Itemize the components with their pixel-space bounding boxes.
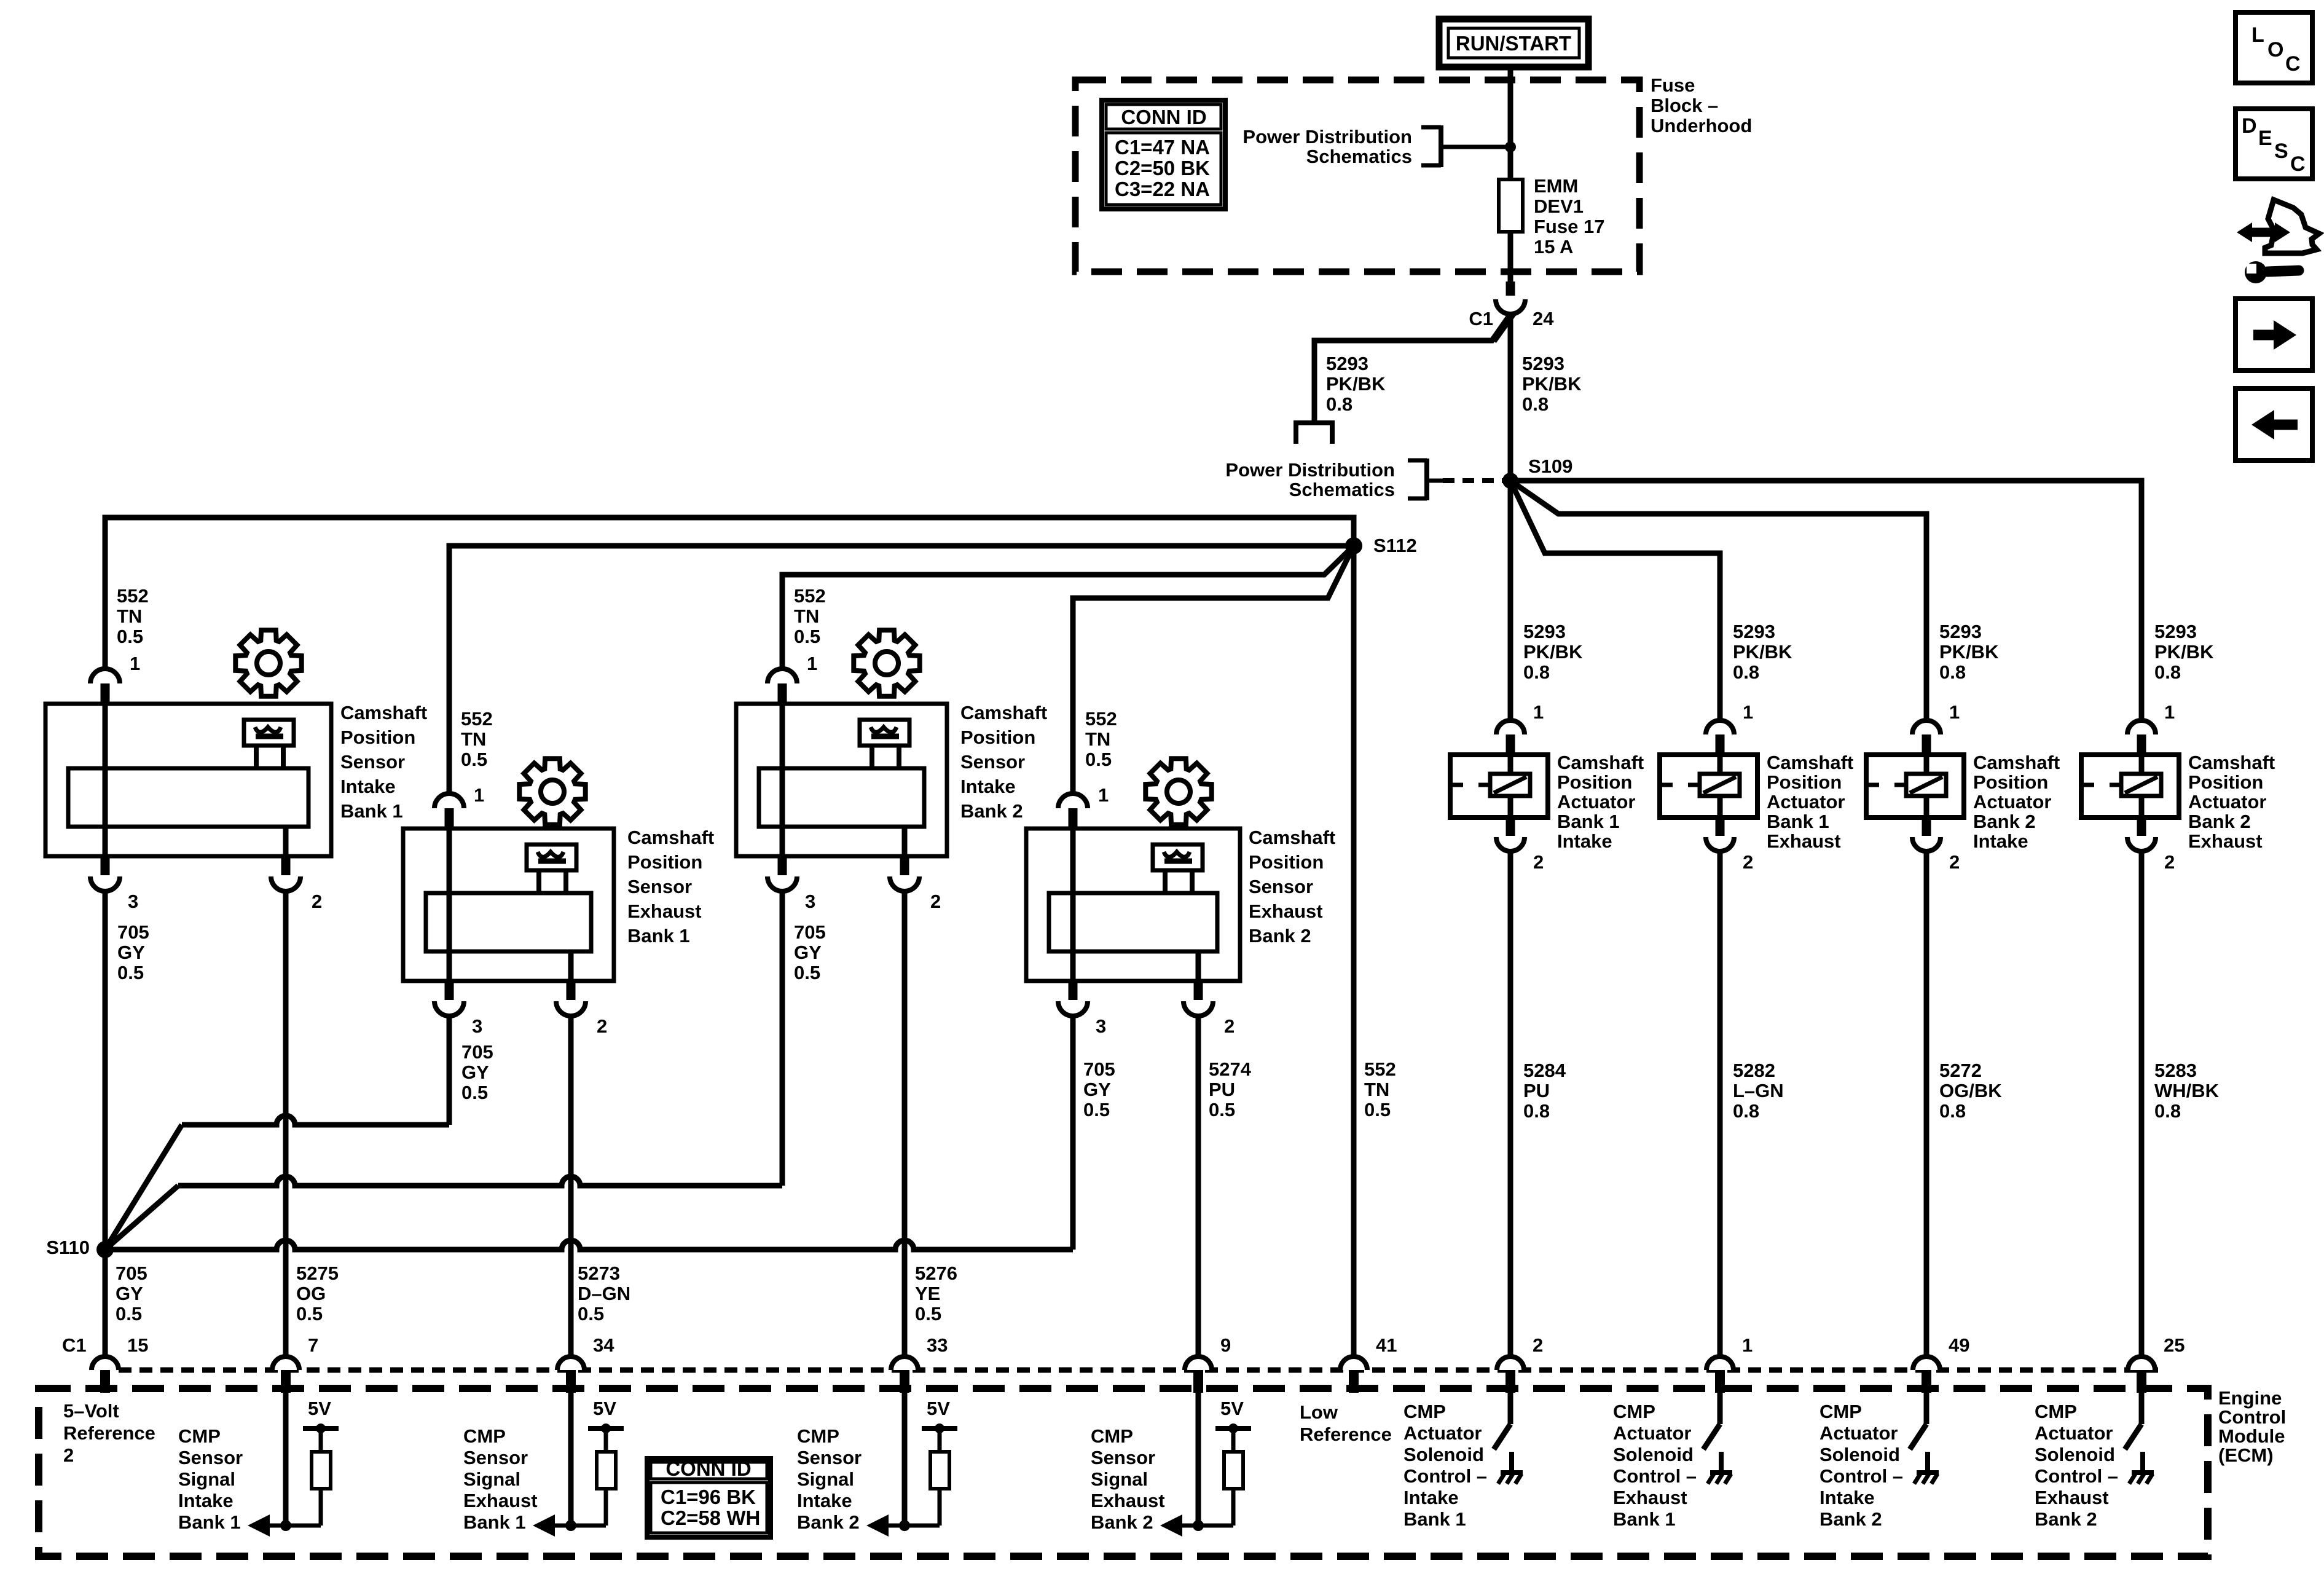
label Camshaft Position Actuator Bank 2 Intake — [1973, 752, 2060, 852]
svg-text:PU: PU — [1523, 1080, 1550, 1101]
label pin number 2 — [1533, 1334, 1543, 1356]
camshaft position sensor exhaust bank 2 — [1026, 829, 1240, 981]
svg-text:D: D — [2242, 114, 2257, 138]
svg-text:1: 1 — [2164, 701, 2175, 723]
svg-text:7: 7 — [308, 1334, 318, 1356]
svg-text:Bank 2: Bank 2 — [797, 1511, 860, 1533]
wire sensor1 pin3 down to S110 — [103, 891, 108, 1250]
svg-text:Actuator: Actuator — [1557, 791, 1635, 813]
label Camshaft Position Sensor Exhaust Bank 1 — [627, 827, 714, 947]
camshaft position actuator bank 2 intake — [1866, 720, 1964, 851]
driver switch (Intake Bank 1) — [1494, 1391, 1510, 1449]
gear icon (sensor2) — [519, 758, 585, 824]
svg-text:TN: TN — [117, 605, 142, 627]
svg-text:CMP: CMP — [1820, 1401, 1862, 1422]
splice S110 — [96, 1241, 114, 1258]
svg-text:Underhood: Underhood — [1651, 115, 1752, 136]
wire sensor3 pin3 to S110 — [105, 891, 782, 1250]
svg-text:Bank 1: Bank 1 — [463, 1511, 526, 1533]
svg-text:Camshaft: Camshaft — [1973, 752, 2060, 773]
svg-text:Control –: Control – — [2035, 1465, 2118, 1487]
svg-text:CMP: CMP — [2035, 1401, 2077, 1422]
label pin 1 (camshaft position actuator bank 2 intake) — [1949, 701, 1960, 723]
wire 5284 PU to ECM — [1508, 851, 1513, 1357]
5V pull-up resistor (Intake Bank 2) — [866, 1398, 957, 1537]
label wire 5293 PK/BK 0.8 (camshaft position actuator bank 1 intake) — [1523, 621, 1583, 683]
svg-text:Position: Position — [1973, 771, 2048, 793]
svg-text:Intake: Intake — [178, 1490, 234, 1511]
connector pin1 sensor1 — [90, 669, 120, 704]
svg-text:Intake: Intake — [1973, 830, 2028, 852]
camshaft position actuator bank 1 intake — [1450, 720, 1548, 851]
svg-text:Position: Position — [2188, 771, 2263, 793]
svg-text:5283: 5283 — [2154, 1060, 2197, 1081]
ground (Exhaust Bank 1) — [1708, 1452, 1732, 1484]
svg-text:Sensor: Sensor — [1091, 1447, 1155, 1468]
connector C1 pin 24 below fuse block — [1496, 282, 1525, 314]
svg-text:Schematics: Schematics — [1289, 479, 1395, 500]
svg-text:552: 552 — [1364, 1058, 1396, 1080]
svg-text:49: 49 — [1949, 1334, 1969, 1356]
svg-text:(ECM): (ECM) — [2218, 1444, 2274, 1466]
svg-text:Fuse: Fuse — [1651, 74, 1695, 96]
svg-text:2: 2 — [312, 891, 322, 912]
svg-text:5284: 5284 — [1523, 1060, 1566, 1081]
gear icon (sensor1) — [235, 630, 301, 696]
svg-text:GY: GY — [794, 942, 822, 963]
svg-text:1: 1 — [474, 784, 484, 806]
svg-text:S110: S110 — [46, 1237, 90, 1258]
svg-text:0.8: 0.8 — [2154, 661, 2181, 683]
svg-text:Exhaust: Exhaust — [463, 1490, 538, 1511]
svg-text:CMP: CMP — [1613, 1401, 1655, 1422]
connector pin3 sensor1 — [90, 856, 120, 891]
icon back arrow box — [2236, 388, 2312, 460]
svg-text:Bank 2: Bank 2 — [1973, 811, 2036, 832]
wire 552 TN sensor1 pin1 to S112 — [105, 518, 1354, 669]
connector pin2 sensor1 — [271, 856, 300, 891]
svg-text:EMM: EMM — [1534, 175, 1578, 197]
svg-text:2: 2 — [597, 1015, 607, 1037]
label pin 1 (sensor4) — [1098, 784, 1109, 806]
svg-text:Actuator: Actuator — [1403, 1422, 1482, 1444]
label CMP Actuator Solenoid Control Intake Bank 1 — [1403, 1401, 1487, 1530]
svg-text:1: 1 — [1743, 701, 1753, 723]
svg-text:3: 3 — [128, 891, 138, 912]
label pin 1 (camshaft position actuator bank 2 exhaust) — [2164, 701, 2175, 723]
svg-text:Bank 2: Bank 2 — [1091, 1511, 1153, 1533]
ECM connector pin 1 — [1706, 1357, 1733, 1393]
connector pin3 sensor2 — [434, 981, 464, 1016]
svg-text:TN: TN — [1364, 1079, 1389, 1100]
label wire 552 TN 0.5 (to pin41) — [1364, 1058, 1396, 1120]
svg-text:552: 552 — [117, 585, 149, 607]
svg-text:CMP: CMP — [1091, 1425, 1133, 1447]
svg-text:Exhaust: Exhaust — [1767, 830, 1841, 852]
label wire 552 TN 0.5 (sensor1) — [117, 585, 149, 647]
ECM connector pin 2 — [1497, 1357, 1524, 1393]
label pin 1 (sensor3) — [807, 653, 817, 674]
wire from top callout to junction — [1454, 145, 1510, 149]
wire 552 TN sensor3 pin1 to S112 — [782, 546, 1354, 669]
svg-text:Intake: Intake — [1403, 1487, 1459, 1508]
svg-text:Position: Position — [1767, 771, 1842, 793]
svg-text:Position: Position — [960, 726, 1035, 748]
svg-text:5V: 5V — [927, 1398, 950, 1419]
svg-text:705: 705 — [1083, 1058, 1115, 1080]
ECM connector pin 9 — [1185, 1357, 1212, 1393]
label pin 1 (sensor2) — [474, 784, 484, 806]
svg-text:TN: TN — [461, 728, 486, 750]
svg-text:0.8: 0.8 — [1523, 661, 1550, 683]
svg-text:41: 41 — [1376, 1334, 1397, 1356]
icon LOC box — [2236, 12, 2312, 83]
svg-text:CONN ID: CONN ID — [665, 1457, 751, 1480]
svg-text:Intake: Intake — [340, 776, 396, 797]
svg-text:Exhaust: Exhaust — [1613, 1487, 1687, 1508]
svg-text:Exhaust: Exhaust — [2035, 1487, 2109, 1508]
connector pin3 sensor3 — [767, 856, 797, 891]
svg-text:GY: GY — [1083, 1079, 1111, 1100]
fuse block dashed border — [1075, 80, 1639, 272]
svg-text:Control –: Control – — [1613, 1465, 1697, 1487]
wire 552 TN sensor2 pin1 to S112 — [449, 546, 1354, 794]
svg-text:C2=58 WH: C2=58 WH — [661, 1506, 760, 1529]
svg-text:Sensor: Sensor — [1249, 876, 1313, 897]
ECM connector pin 41 — [1340, 1357, 1367, 1393]
svg-text:0.5: 0.5 — [116, 1303, 142, 1325]
svg-text:GY: GY — [461, 1061, 489, 1083]
svg-text:0.5: 0.5 — [1209, 1099, 1235, 1120]
label pin 2 (sensor3) — [930, 891, 941, 912]
wire sensor4 pin3 to S110 — [105, 1016, 1073, 1250]
svg-text:0.8: 0.8 — [1523, 1100, 1550, 1122]
label pin 2 (camshaft position actuator bank 1 exhaust) — [1743, 851, 1753, 873]
svg-text:TN: TN — [794, 605, 819, 627]
svg-text:PK/BK: PK/BK — [2154, 641, 2214, 663]
svg-text:5282: 5282 — [1733, 1060, 1775, 1081]
svg-text:Intake: Intake — [1820, 1487, 1875, 1508]
svg-text:PK/BK: PK/BK — [1326, 373, 1386, 395]
svg-text:S112: S112 — [1373, 535, 1417, 556]
svg-text:Bank 2: Bank 2 — [960, 800, 1023, 822]
svg-text:705: 705 — [117, 921, 149, 943]
ECM connector pin 7 — [272, 1357, 299, 1393]
label wire 5272 OG/BK 0.8 — [1939, 1060, 2002, 1122]
wire 705 GY S110 to ECM pin15 — [103, 1250, 108, 1357]
splice S112 — [1345, 537, 1362, 554]
svg-text:2: 2 — [1743, 851, 1753, 873]
label pin 2 (camshaft position actuator bank 1 intake) — [1533, 851, 1544, 873]
svg-text:Sensor: Sensor — [797, 1447, 862, 1468]
svg-text:3: 3 — [805, 891, 815, 912]
label wire 5274 PU 0.5 — [1209, 1058, 1252, 1120]
svg-text:2: 2 — [930, 891, 941, 912]
svg-text:0.8: 0.8 — [1733, 1100, 1759, 1122]
driver switch (Exhaust Bank 1) — [1703, 1391, 1720, 1449]
svg-text:1: 1 — [130, 653, 140, 674]
svg-text:Fuse 17: Fuse 17 — [1534, 216, 1604, 237]
wire S109 to actuator bank2 intake — [1510, 481, 1926, 720]
svg-text:Position: Position — [627, 851, 702, 873]
label pin 2 (camshaft position actuator bank 2 intake) — [1949, 851, 1960, 873]
svg-text:5273: 5273 — [578, 1262, 620, 1284]
label pin 2 (sensor1) — [312, 891, 322, 912]
wire 5293 left branch diagonal — [1314, 316, 1509, 423]
svg-text:Exhaust: Exhaust — [1249, 900, 1323, 922]
svg-text:5276: 5276 — [915, 1262, 957, 1284]
svg-text:Block –: Block – — [1651, 95, 1718, 116]
wire 5275 OG sensor1 pin2 to ECM pin7 — [283, 891, 289, 1357]
label S109 — [1528, 455, 1572, 477]
svg-text:Camshaft: Camshaft — [1249, 827, 1335, 848]
svg-text:D–GN: D–GN — [578, 1283, 630, 1304]
label CMP Sensor Signal Exhaust Bank 2 — [1091, 1425, 1165, 1533]
svg-text:Sensor: Sensor — [340, 751, 405, 773]
label Camshaft Position Sensor Intake Bank 2 — [960, 702, 1047, 822]
svg-text:PK/BK: PK/BK — [1523, 641, 1583, 663]
wire 5293 PK/BK main down to S109 — [1508, 314, 1513, 481]
svg-text:C: C — [2285, 52, 2301, 76]
label pin 3 (sensor3) — [805, 891, 815, 912]
svg-text:0.8: 0.8 — [1522, 393, 1549, 415]
dashed wire callout to S109 — [1443, 478, 1503, 483]
bracket (S109 callout) — [1408, 459, 1443, 500]
svg-text:5293: 5293 — [1733, 621, 1775, 642]
camshaft position sensor exhaust bank 1 — [403, 829, 614, 981]
connector pin2 sensor3 — [890, 856, 919, 891]
svg-text:Camshaft: Camshaft — [627, 827, 714, 848]
label pin 3 (sensor4) — [1096, 1015, 1106, 1037]
connector pin1 sensor3 — [767, 669, 797, 704]
svg-text:Bank 2: Bank 2 — [2188, 811, 2251, 832]
svg-text:1: 1 — [807, 653, 817, 674]
svg-text:Bank 1: Bank 1 — [1557, 811, 1620, 832]
wire S109 down to actuator bank1 intake — [1508, 481, 1513, 720]
label 5-Volt Reference 2 — [63, 1400, 155, 1466]
svg-text:C1=47 NA: C1=47 NA — [1115, 136, 1210, 159]
svg-text:1: 1 — [1949, 701, 1960, 723]
svg-text:Position: Position — [340, 726, 415, 748]
svg-text:PK/BK: PK/BK — [1733, 641, 1792, 663]
svg-text:L: L — [2251, 23, 2264, 47]
svg-text:5293: 5293 — [1523, 621, 1566, 642]
ground (Intake Bank 1) — [1498, 1452, 1523, 1484]
svg-text:Exhaust: Exhaust — [627, 900, 702, 922]
label Low Reference — [1300, 1401, 1392, 1445]
label wire 705 GY 0.5 (sensor1 pin3) — [117, 921, 149, 983]
svg-text:2: 2 — [1533, 851, 1544, 873]
svg-text:2: 2 — [1224, 1015, 1235, 1037]
svg-text:GY: GY — [117, 942, 145, 963]
label CMP Actuator Solenoid Control Exhaust Bank 2 — [2035, 1401, 2118, 1530]
svg-text:Signal: Signal — [1091, 1468, 1148, 1490]
label wire 5293 PK/BK 0.8 (camshaft position actuator bank 2 exhaust) — [2154, 621, 2214, 683]
label pin number 33 — [927, 1334, 948, 1356]
svg-text:Actuator: Actuator — [1767, 791, 1845, 813]
svg-text:PU: PU — [1209, 1079, 1235, 1100]
svg-text:Control: Control — [2218, 1406, 2286, 1428]
svg-text:PK/BK: PK/BK — [1522, 373, 1582, 395]
svg-text:552: 552 — [1085, 708, 1117, 730]
svg-text:C2=50 BK: C2=50 BK — [1115, 157, 1210, 179]
label pin number 15 — [127, 1334, 148, 1356]
bracket (top callout) — [1421, 125, 1454, 167]
svg-text:0.5: 0.5 — [794, 962, 820, 983]
wire 5273 D-GN sensor2 pin2 to ECM pin34 — [568, 1016, 574, 1357]
wire 5282 L–GN to ECM — [1717, 851, 1723, 1357]
svg-text:Bank 2: Bank 2 — [2035, 1508, 2097, 1530]
svg-text:Power Distribution: Power Distribution — [1225, 459, 1395, 481]
svg-text:Actuator: Actuator — [1973, 791, 2051, 813]
svg-text:Camshaft: Camshaft — [960, 702, 1047, 723]
label wire 705 GY 0.5 (sensor2 pin3) — [461, 1041, 493, 1103]
wire from RUN/START into fuse block — [1508, 67, 1513, 148]
svg-text:0.5: 0.5 — [1085, 749, 1112, 770]
label pin 1 (camshaft position actuator bank 1 intake) — [1533, 701, 1544, 723]
camshaft position sensor intake bank 2 — [736, 704, 947, 856]
label C1 (ECM connector) — [62, 1334, 87, 1356]
svg-text:Bank 1: Bank 1 — [1403, 1508, 1466, 1530]
label wire 5293 PK/BK 0.8 (main) — [1522, 353, 1582, 415]
svg-text:Reference: Reference — [1300, 1423, 1392, 1445]
svg-text:33: 33 — [927, 1334, 948, 1356]
ground (Exhaust Bank 2) — [2129, 1452, 2154, 1484]
label pin number 7 — [308, 1334, 318, 1356]
power feed RUN/START box — [1439, 19, 1588, 67]
wire Intake Bank 1 signal inside ECM — [283, 1392, 289, 1526]
svg-text:5272: 5272 — [1939, 1060, 1982, 1081]
ground (Intake Bank 2) — [1914, 1452, 1939, 1484]
svg-text:0.8: 0.8 — [1733, 661, 1759, 683]
svg-text:O: O — [2267, 38, 2283, 61]
label wire 552 TN 0.5 (sensor2) — [461, 708, 493, 770]
svg-text:0.5: 0.5 — [578, 1303, 604, 1325]
svg-text:0.8: 0.8 — [2154, 1100, 2181, 1122]
label CMP Actuator Solenoid Control Intake Bank 2 — [1820, 1401, 1903, 1530]
svg-text:Exhaust: Exhaust — [2188, 830, 2263, 852]
svg-text:DEV1: DEV1 — [1534, 195, 1584, 217]
svg-text:3: 3 — [1096, 1015, 1106, 1037]
ECM connector pin 34 — [557, 1357, 584, 1393]
svg-text:Actuator: Actuator — [2188, 791, 2266, 813]
svg-text:Control –: Control – — [1403, 1465, 1487, 1487]
CONN ID table (fuse block) — [1102, 100, 1225, 209]
svg-text:C1: C1 — [62, 1334, 87, 1356]
svg-text:Actuator: Actuator — [1820, 1422, 1898, 1444]
svg-text:5V: 5V — [308, 1398, 331, 1419]
wire 5274 PU sensor4 pin2 to ECM pin9 — [1196, 1016, 1201, 1357]
label Camshaft Position Actuator Bank 2 Exhaust — [2188, 752, 2275, 852]
label wire 705 GY 0.5 (below S110) — [116, 1262, 147, 1325]
svg-text:0.5: 0.5 — [117, 626, 143, 647]
svg-text:0.5: 0.5 — [117, 962, 144, 983]
svg-text:GY: GY — [116, 1283, 143, 1304]
svg-text:0.8: 0.8 — [1939, 661, 1966, 683]
svg-text:C: C — [2290, 152, 2306, 176]
svg-text:705: 705 — [116, 1262, 147, 1284]
svg-text:E: E — [2258, 127, 2272, 150]
label Camshaft Position Sensor Exhaust Bank 2 — [1249, 827, 1335, 947]
svg-text:Intake: Intake — [797, 1490, 852, 1511]
svg-text:2: 2 — [2164, 851, 2175, 873]
wire 5283 WH/BK to ECM — [2139, 851, 2145, 1357]
svg-text:Signal: Signal — [178, 1468, 235, 1490]
label pin 3 (sensor1) — [128, 891, 138, 912]
5V pull-up resistor (Exhaust Bank 2) — [1160, 1398, 1251, 1537]
wire pin15 stub into ECM — [103, 1370, 108, 1393]
svg-text:5274: 5274 — [1209, 1058, 1252, 1080]
svg-text:CMP: CMP — [1403, 1401, 1446, 1422]
svg-text:Position: Position — [1249, 851, 1324, 873]
gear icon (sensor4) — [1145, 758, 1211, 824]
label CMP Sensor Signal Intake Bank 2 — [797, 1425, 862, 1533]
svg-text:OG/BK: OG/BK — [1939, 1080, 2002, 1101]
label pin 2 (camshaft position actuator bank 2 exhaust) — [2164, 851, 2175, 873]
fork continuation symbol — [1294, 423, 1335, 444]
svg-text:Solenoid: Solenoid — [1613, 1444, 1694, 1465]
svg-text:5293: 5293 — [1326, 353, 1368, 374]
svg-text:Sensor: Sensor — [960, 751, 1025, 773]
svg-text:Solenoid: Solenoid — [2035, 1444, 2115, 1465]
svg-text:5293: 5293 — [1939, 621, 1982, 642]
svg-text:S109: S109 — [1528, 455, 1572, 477]
svg-text:Bank 1: Bank 1 — [178, 1511, 241, 1533]
label pin number 1 — [1742, 1334, 1753, 1356]
svg-text:Engine: Engine — [2218, 1387, 2282, 1409]
svg-text:Solenoid: Solenoid — [1820, 1444, 1900, 1465]
splice S109 — [1502, 473, 1518, 489]
camshaft position sensor intake bank 1 — [45, 704, 331, 856]
connector C1 separator slash — [1494, 313, 1515, 342]
label wire 5283 WH/BK 0.8 — [2154, 1060, 2220, 1122]
label wire 5275 OG 0.5 — [296, 1262, 339, 1325]
svg-text:Camshaft: Camshaft — [1557, 752, 1644, 773]
wire Exhaust Bank 2 signal inside ECM — [1196, 1392, 1201, 1526]
svg-text:552: 552 — [461, 708, 493, 730]
label wire 5293 PK/BK 0.8 (camshaft position actuator bank 2 intake) — [1939, 621, 1999, 683]
svg-text:Sensor: Sensor — [627, 876, 692, 897]
fuse EMM DEV1 Fuse 17 15A — [1499, 179, 1523, 282]
junction dot above fuse — [1505, 141, 1516, 152]
svg-text:Exhaust: Exhaust — [1091, 1490, 1165, 1511]
label Camshaft Position Actuator Bank 1 Intake — [1557, 752, 1644, 852]
label wire 5276 YE 0.5 — [915, 1262, 957, 1325]
svg-text:5293: 5293 — [2154, 621, 2197, 642]
svg-text:Bank 2: Bank 2 — [1249, 925, 1311, 947]
label pin 3 (sensor2) — [472, 1015, 482, 1037]
camshaft position actuator bank 1 exhaust — [1660, 720, 1757, 851]
ECM connector face dotted line — [119, 1368, 2158, 1373]
svg-text:C1: C1 — [1469, 308, 1493, 329]
svg-text:15 A: 15 A — [1534, 236, 1573, 258]
svg-text:0.8: 0.8 — [1939, 1100, 1966, 1122]
svg-text:OG: OG — [296, 1283, 326, 1304]
svg-text:Bank 1: Bank 1 — [1613, 1508, 1676, 1530]
connector pin1 sensor4 — [1058, 793, 1088, 829]
label CMP Actuator Solenoid Control Exhaust Bank 1 — [1613, 1401, 1697, 1530]
svg-text:Reference: Reference — [63, 1422, 155, 1444]
svg-text:0.5: 0.5 — [461, 1082, 488, 1103]
svg-text:1: 1 — [1742, 1334, 1753, 1356]
label pin number 49 — [1949, 1334, 1969, 1356]
ECM connector pin 15 — [92, 1357, 119, 1393]
svg-text:Signal: Signal — [463, 1468, 520, 1490]
label pin 1 (sensor1) — [130, 653, 140, 674]
svg-text:1: 1 — [1098, 784, 1109, 806]
svg-text:1: 1 — [1533, 701, 1544, 723]
svg-text:15: 15 — [127, 1334, 148, 1356]
